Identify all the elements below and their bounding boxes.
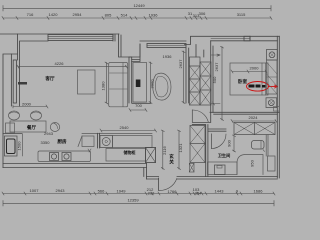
svg-text:关: 关 xyxy=(169,159,174,166)
dining chairs round xyxy=(9,111,20,120)
ledge right of tub xyxy=(268,156,276,171)
dim 2000 (balcony door) xyxy=(13,105,48,108)
svg-text:1380: 1380 xyxy=(101,81,106,91)
svg-text:950: 950 xyxy=(250,159,255,166)
toilet: middle bathroom xyxy=(153,73,171,100)
svg-text:324: 324 xyxy=(195,191,202,196)
svg-text:2637: 2637 xyxy=(178,59,183,69)
dim 2000 vertical toilet room xyxy=(149,62,152,104)
window: living room top xyxy=(48,35,113,41)
svg-text:2540: 2540 xyxy=(120,125,130,130)
svg-text:1443: 1443 xyxy=(215,189,225,194)
toilet: bathroom xyxy=(252,141,265,150)
svg-text:805: 805 xyxy=(105,13,112,18)
svg-text:12449: 12449 xyxy=(133,3,145,8)
wall: right outer xyxy=(277,36,279,178)
hob burners xyxy=(50,153,72,161)
dim 2637 vertical toilet room xyxy=(182,51,185,104)
column: X box by kitchen xyxy=(146,148,156,163)
red arrow xyxy=(269,86,278,88)
dim 4226 living width xyxy=(17,65,128,68)
wall: window right jamb xyxy=(113,35,115,42)
dim tick line below wardrobe xyxy=(212,102,220,105)
wardrobe: bedroom right with end boxes xyxy=(267,50,278,61)
svg-text:212: 212 xyxy=(148,191,155,196)
window jamb rect xyxy=(244,36,250,41)
wall: kitchen divider xyxy=(98,133,100,148)
svg-text:2954: 2954 xyxy=(73,12,83,17)
dim 900 vertical xyxy=(233,135,236,152)
top chain dimension line xyxy=(2,17,272,20)
svg-text:3115: 3115 xyxy=(237,12,246,17)
svg-text:1420: 1420 xyxy=(49,12,59,17)
window: bedroom top xyxy=(211,38,250,40)
svg-text:1686: 1686 xyxy=(254,189,264,194)
svg-text:2000: 2000 xyxy=(150,79,155,89)
wall: living room right xyxy=(129,57,132,103)
svg-text:700: 700 xyxy=(135,103,142,108)
svg-text:2637: 2637 xyxy=(214,62,219,72)
wall: step between kitchen and entry xyxy=(144,164,147,180)
faucet marks xyxy=(88,149,91,152)
svg-text:716: 716 xyxy=(27,12,34,17)
wall: bedroom/bathroom divider xyxy=(210,112,279,114)
bed xyxy=(230,63,268,95)
wall: toilet room right xyxy=(186,48,189,103)
small box on right wall xyxy=(274,107,280,112)
wardrobe: hall upper hatched strip xyxy=(190,57,212,105)
svg-text:卫生间: 卫生间 xyxy=(218,152,231,159)
svg-text:4226: 4226 xyxy=(55,61,65,66)
svg-text:1007: 1007 xyxy=(30,188,40,193)
wall: left bay outer xyxy=(3,54,18,168)
svg-text:1500: 1500 xyxy=(17,141,22,151)
wall stub below basin xyxy=(132,102,151,104)
fridge with open door xyxy=(82,136,94,147)
dim 1380 vertical xyxy=(105,62,108,104)
svg-text:2000: 2000 xyxy=(22,102,32,107)
wall: jog to toilet room xyxy=(132,44,140,62)
svg-text:566: 566 xyxy=(98,189,105,194)
wall: hall/bathroom divider xyxy=(192,125,208,177)
bathtub xyxy=(237,155,263,175)
svg-text:1936: 1936 xyxy=(149,13,159,18)
svg-text:2024: 2024 xyxy=(249,115,259,120)
dim 2637 bedroom vertical xyxy=(221,47,224,121)
window: toilet room top xyxy=(147,44,186,48)
counter: kitchen top xyxy=(113,136,153,148)
bottom total dimension line 12359 xyxy=(3,201,274,207)
svg-text:2116: 2116 xyxy=(162,145,167,154)
svg-text:1766: 1766 xyxy=(168,189,178,194)
hall dims vertical xyxy=(161,130,164,170)
bottom chain numbers xyxy=(30,187,264,196)
sink: kitchen xyxy=(100,136,113,148)
svg-text:厨房: 厨房 xyxy=(57,138,67,145)
red ellipse annotation xyxy=(247,82,269,92)
wall: kitchen bottom xyxy=(3,164,147,168)
vanity: bathroom hatched cabinet xyxy=(234,123,275,135)
svg-text:卧室: 卧室 xyxy=(238,78,248,85)
door: bedroom (hall to bedroom) xyxy=(192,110,210,122)
svg-text:2943: 2943 xyxy=(56,188,66,193)
svg-text:1936: 1936 xyxy=(163,54,173,59)
wall: bathroom lobby lintel xyxy=(208,129,226,131)
dining chair square xyxy=(6,123,15,133)
svg-text:1949: 1949 xyxy=(117,189,127,194)
svg-text:306: 306 xyxy=(199,11,206,16)
door: bathroom xyxy=(211,134,213,149)
svg-text:500: 500 xyxy=(212,76,217,83)
dim 1500 vertical xyxy=(22,134,24,156)
dim arrow bedroom top-left xyxy=(211,54,220,56)
svg-text:900: 900 xyxy=(227,139,232,146)
wall: top-left outer xyxy=(0,33,119,35)
dining table xyxy=(10,121,46,132)
door: entry xyxy=(158,178,160,190)
top chain numbers xyxy=(27,11,246,18)
shelf: living east wall bookcase xyxy=(109,63,128,107)
svg-text:餐厅: 餐厅 xyxy=(26,124,37,131)
svg-text:2000: 2000 xyxy=(250,66,260,71)
svg-text:514: 514 xyxy=(121,13,128,18)
svg-text:12359: 12359 xyxy=(127,198,139,203)
top total dimension line 12449 xyxy=(3,6,271,12)
washing machine xyxy=(5,136,18,156)
line: dining/laundry divider xyxy=(3,133,22,135)
wall: bedroom left xyxy=(211,41,213,123)
wall: top step corner xyxy=(185,36,280,44)
counter: hob (bottom) xyxy=(38,151,91,162)
wall: entry bottom with door opening xyxy=(147,177,159,180)
svg-text:储物柜: 储物柜 xyxy=(124,149,136,155)
small label next to door xyxy=(18,82,27,85)
svg-text:客厅: 客厅 xyxy=(44,75,55,82)
cabinet: toilet room basin xyxy=(133,63,147,103)
svg-text:3350: 3350 xyxy=(41,140,51,145)
washbasin: bathroom xyxy=(208,162,238,175)
kitchen: top line xyxy=(82,132,152,134)
wall: recess edge (outdoor void) xyxy=(119,34,141,57)
svg-text:1321: 1321 xyxy=(178,143,183,153)
wall: bay inner line xyxy=(11,54,19,106)
storage cabinet 储物柜 xyxy=(106,149,146,162)
cabinet: hall lower hatched xyxy=(190,126,205,163)
wall: bedroom top inner xyxy=(211,36,278,41)
sliding door: balcony xyxy=(13,60,16,103)
wall: bottom right of entry door xyxy=(177,177,277,180)
scribble annotation under red ellipse xyxy=(249,85,266,88)
table: living room xyxy=(78,70,96,94)
small X box below hall cabinet xyxy=(189,163,194,172)
bottom chain dimension line xyxy=(2,192,275,195)
wall: toilet-room top outer xyxy=(140,40,186,42)
wall: left jamb and inner line xyxy=(18,34,49,60)
